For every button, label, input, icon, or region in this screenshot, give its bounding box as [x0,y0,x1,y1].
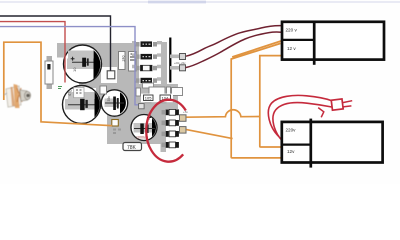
C2 plus sign [74,87,84,97]
diode D1 left pad [136,42,140,47]
C1 crescent [94,50,101,79]
wire orange lower pad diagonal [186,130,232,139]
trace stubs diode rows left [132,43,136,79]
C3 crescent [120,92,126,113]
diode D4 left pad [136,78,140,83]
svg-text:220 v: 220 v [286,27,298,32]
svg-text:78K: 78K [127,145,137,151]
bus bar black line [169,38,171,83]
resistor R1 body [45,61,53,84]
C2 crescent [95,92,100,117]
mains plug body [331,99,343,110]
pad for blue wire [139,104,145,109]
svg-text:12v: 12v [287,149,295,154]
pad P4 (orange wire lower) [180,127,187,134]
diode D4 body [141,78,153,84]
C4 plus sign [147,116,151,120]
C5 marks [130,54,135,60]
svg-text:35v: 35v [107,96,111,102]
silkscreen green marks [58,87,62,89]
trace stub to pad P2 [170,66,180,70]
C4 thin bar [146,125,149,134]
bottom column diode D5 [162,109,179,115]
C1 lead [72,61,94,63]
diode D1 body [141,41,153,47]
wire red from top-left [0,22,65,83]
diode D2 body [141,54,153,60]
transformer T1 box [282,22,384,60]
capacitor C1 body [64,45,102,83]
tiny pads dots [113,130,121,134]
transformer T2 box [282,122,383,163]
C1 plus sign [71,57,75,61]
pad P2 (to 220v wire) [180,65,186,71]
bottom column diode D7 [162,131,179,137]
bottom column diode D8 [162,142,179,148]
PCB copper pour lower slab [107,109,161,144]
PCB copper pour central slab [96,84,178,109]
diode D3 body [141,65,153,71]
pad for black wire [107,71,115,79]
svg-text:+20v -20v: +20v -20v [174,61,186,65]
label box 105 [144,95,154,101]
C4 crescent [152,118,156,136]
small part between C2 C3 [100,86,107,94]
diode D2 band [143,56,151,58]
small part D [172,88,183,96]
diode D3 right pad [153,66,157,71]
wire blue from top-left [0,27,139,105]
svg-text:12 v: 12 v [287,46,296,51]
capacitor C4 body [131,115,157,141]
wire orange thick diagonal to T1 [231,43,280,59]
C1 trace band [67,59,98,70]
capacitor C5 small body [129,52,137,72]
diode D1 band [143,43,151,45]
small part A [136,88,141,96]
diode D1 right pad [153,42,157,47]
C2 trace band [65,99,98,110]
svg-text:+5v: +5v [183,110,188,114]
plug prong 1 [343,101,352,103]
plug prong 2 [343,106,352,107]
svg-text:10: 10 [72,67,77,72]
wire orange upper pad with hop [186,110,259,117]
R1 label mark [47,64,50,70]
C3 polarity bar [113,97,116,111]
label box 104 [160,95,171,101]
wire orange vertical v1 [231,58,281,158]
trace stubs diode rows right [157,43,162,79]
T1 divider horizontal [282,39,314,41]
regulator label box 78K [123,143,142,151]
resistor R1 bottom pad [47,84,53,89]
diode D2 left pad [136,54,140,59]
T1 divider vertical [313,21,316,65]
white notch left [54,58,66,71]
pad for orange wire end [112,120,119,127]
C4 lead [134,128,155,130]
bottom column diode D6 [162,120,179,126]
mains cable wire A [268,95,331,136]
PCB vertical trace bottom column [161,103,167,152]
horizontal resistor R3 [143,83,154,88]
PCB vertical trace right of diodes [161,42,167,88]
T2 divider horizontal [282,143,311,145]
loose wire hook [318,108,324,118]
wire maroon B to T1 220v [186,32,282,68]
PCB copper pour left slab [57,43,139,88]
diode D3 left pad [136,66,140,71]
mains cable wire B [273,103,332,141]
C2 polarity bar [80,99,85,110]
C3 trace band [105,99,120,108]
jack photo [4,84,31,108]
resistor R1 top pad [47,56,53,61]
C1 thin bar [87,58,89,65]
svg-text:240: 240 [122,56,126,62]
C2 thin bar [85,100,87,108]
wire orange jack loop [4,42,112,126]
resistor R2 body [119,52,126,70]
pad P3 (orange wire upper) [180,115,187,122]
diode D4 right pad [153,78,157,83]
C2 lead [68,104,95,106]
C3 thin bar [117,98,119,109]
capacitor C3 body [101,90,127,116]
white notch bottom-left [54,68,79,89]
wire black from top-left [0,16,111,71]
C4 trace band [134,123,155,133]
small part B wide [149,87,165,95]
C1 polarity bar [82,58,86,67]
C3 lead [105,102,124,104]
diode D2 right pad [153,54,157,59]
red ellipse annotation [146,100,186,162]
T2 divider vertical [309,119,312,168]
small part C [167,87,171,96]
white strip behind label row [141,94,173,103]
diode D4 band [143,80,151,82]
tiny silk text under labels [145,102,167,104]
diode D3 end caps [141,65,153,71]
window top edge darker segment [148,1,206,4]
window top edge line [0,1,400,3]
svg-text:220v: 220v [286,128,297,133]
C4 polarity bar [140,124,144,135]
white notch around pad [101,67,117,83]
wire orange v2 top [260,56,282,147]
svg-text:105: 105 [145,96,152,101]
wire maroon A to T1 220v [186,26,281,57]
capacitor C2 body [63,86,101,124]
trace stub to pad P1 [170,55,180,59]
pad P1 (to 220v wire) [180,54,186,60]
